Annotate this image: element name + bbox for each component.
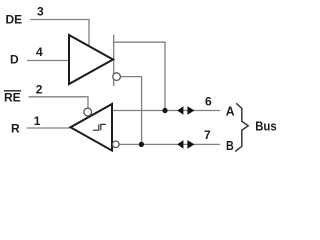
node B junction xyxy=(139,142,144,147)
svg-text:3: 3 xyxy=(37,5,44,19)
wire driver A branch xyxy=(114,42,165,110)
svg-text:R: R xyxy=(11,122,20,136)
wire RE xyxy=(29,97,89,109)
node A junction xyxy=(162,108,167,113)
receiver B input bubble xyxy=(113,141,120,148)
wire driver B branch xyxy=(120,77,141,145)
svg-text:B: B xyxy=(226,138,234,153)
svg-text:RE: RE xyxy=(4,91,21,105)
svg-text:2: 2 xyxy=(36,83,43,97)
wire DE xyxy=(30,20,89,49)
svg-text:1: 1 xyxy=(34,114,41,128)
bus A right arrowhead xyxy=(187,106,194,115)
receiver enable bubble xyxy=(84,108,92,116)
op-amp driver triangle xyxy=(69,35,113,84)
bus B left arrowhead xyxy=(177,140,183,149)
bus B right arrowhead xyxy=(187,140,194,149)
svg-text:A: A xyxy=(226,104,235,119)
wire bus A xyxy=(112,110,220,112)
svg-text:Bus: Bus xyxy=(255,118,277,133)
wire driver output riser xyxy=(113,35,115,87)
wire R xyxy=(27,127,71,129)
op-amp receiver triangle xyxy=(71,104,113,151)
svg-text:7: 7 xyxy=(204,128,211,142)
driver inverting output bubble xyxy=(113,73,121,81)
svg-text:D: D xyxy=(10,53,19,67)
svg-text:6: 6 xyxy=(205,94,212,108)
hysteresis symbol xyxy=(93,124,106,130)
svg-text:4: 4 xyxy=(36,45,43,59)
bus A left arrowhead xyxy=(177,106,183,115)
brace for bus xyxy=(235,103,248,151)
svg-text:DE: DE xyxy=(6,13,23,27)
wire D xyxy=(27,60,69,62)
wire bus B xyxy=(119,143,220,145)
